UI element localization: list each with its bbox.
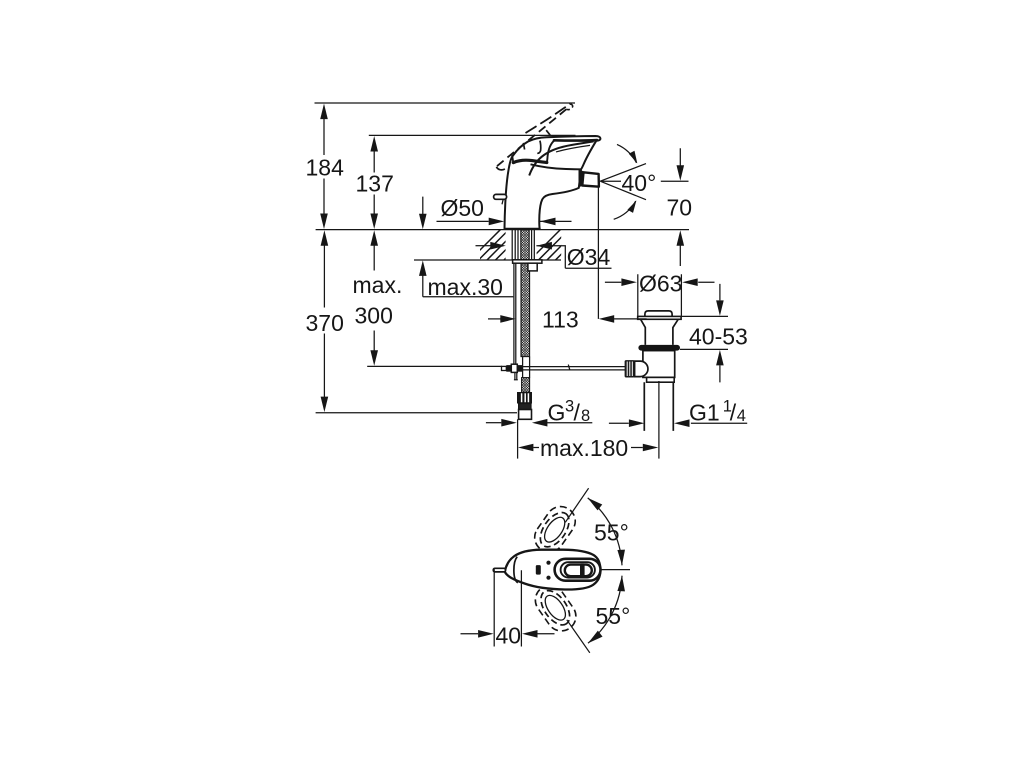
svg-text:G1: G1 bbox=[689, 400, 720, 426]
raised handle (dashed): bottom hook bbox=[496, 167, 505, 170]
top view: handle bar detail bbox=[580, 563, 585, 576]
faucet body with spout horn (side view) bbox=[505, 136, 601, 229]
countertop surface line bbox=[316, 229, 689, 231]
svg-text:max.30: max.30 bbox=[428, 274, 503, 300]
drain: knurled adjuster knob bbox=[625, 360, 635, 377]
top view: 55deg lower extension line bbox=[567, 620, 590, 653]
top view: dot upper bbox=[546, 561, 550, 565]
dimension 40 extension lines bbox=[494, 569, 521, 646]
pop-up rod lower stub bbox=[514, 372, 518, 379]
aerator extension line bbox=[597, 187, 599, 319]
hose collar band bbox=[519, 404, 531, 410]
svg-text:/: / bbox=[730, 400, 737, 426]
drain: pop-up valve body upper bbox=[641, 319, 679, 345]
aerator collar (dark) bbox=[579, 170, 583, 186]
drain: slip collar bbox=[647, 377, 675, 382]
flexible supply hose (braided, lower) bbox=[522, 378, 530, 393]
handle rear edge bbox=[512, 155, 513, 163]
handle front corner edge bbox=[547, 140, 555, 162]
dimension 184 line bbox=[323, 119, 325, 215]
pop-up knob stem tick bbox=[502, 199, 503, 204]
dimension max.30 arrows bbox=[423, 197, 514, 297]
top view: 55deg lower arc bbox=[588, 576, 622, 644]
aerator block bbox=[582, 172, 599, 186]
dimension 370 line bbox=[323, 245, 325, 398]
svg-text:300: 300 bbox=[355, 303, 393, 329]
max.180 extension line left bbox=[517, 419, 519, 458]
dimension 137 line bbox=[373, 151, 375, 215]
dimension 40 arrows bbox=[461, 633, 479, 635]
top view: dashed handle rotated up 55deg bbox=[529, 501, 581, 558]
spray angle arcs bbox=[617, 144, 637, 163]
svg-text:max.180: max.180 bbox=[540, 435, 628, 461]
raised handle (dashed): tip bbox=[566, 104, 572, 110]
cap seam thick line bbox=[513, 160, 547, 162]
top view: handle inner ring bbox=[561, 562, 595, 577]
hose end tube G3/8 bbox=[519, 410, 532, 420]
supply hose plain section bbox=[523, 357, 530, 378]
370 bottom reference line bbox=[316, 412, 517, 414]
pop-up tee clevis bbox=[502, 366, 507, 370]
reference line 137 level bbox=[369, 134, 576, 136]
mounting flange under counter bbox=[513, 260, 542, 263]
pop-up tee left block bbox=[506, 365, 511, 372]
dimension 70 bbox=[661, 180, 689, 182]
top view: aerator stub bbox=[493, 568, 505, 572]
reference line 184 level bbox=[315, 102, 576, 104]
horizontal pop-up linkage rod bbox=[523, 367, 626, 370]
top view: centerline right bbox=[601, 569, 631, 571]
raised handle (dashed): skirt dashes over body bbox=[523, 130, 550, 149]
svg-text:40-53: 40-53 bbox=[689, 324, 748, 350]
raised handle (dashed): upper edge bbox=[526, 104, 571, 133]
raised handle (dashed): skirt J hook bbox=[537, 141, 540, 154]
counter cross-section hatch right bbox=[528, 228, 596, 262]
svg-text:max.: max. bbox=[353, 272, 403, 298]
top view: faucet body outline bbox=[505, 550, 601, 590]
spray angle lines 40deg bbox=[600, 164, 646, 200]
hose nut fitting bbox=[517, 392, 532, 404]
dimension O63 bbox=[605, 281, 621, 283]
threaded stud (textured) through counter bbox=[521, 230, 529, 260]
counter cross-section hatch left bbox=[468, 228, 536, 262]
top view: handle outer capsule bbox=[555, 559, 601, 581]
svg-text:55°: 55° bbox=[594, 519, 629, 545]
drain: lift knob dome bbox=[645, 311, 672, 317]
dimension 113 bbox=[488, 318, 501, 320]
svg-text:G: G bbox=[548, 399, 566, 425]
counter underside line bbox=[414, 259, 561, 261]
svg-text:40°: 40° bbox=[622, 170, 657, 196]
drain: body lower bbox=[643, 351, 675, 378]
dimension O34 arrows bbox=[476, 245, 491, 247]
svg-text:Ø34: Ø34 bbox=[567, 244, 611, 270]
top view: spout tip seam arc bbox=[514, 557, 518, 583]
dimension max.180 bbox=[533, 447, 642, 449]
svg-text:40: 40 bbox=[496, 622, 522, 648]
horn inner reflection line bbox=[556, 145, 590, 152]
svg-text:184: 184 bbox=[306, 155, 345, 181]
svg-text:/: / bbox=[574, 400, 581, 426]
top view: 55deg upper extension line bbox=[565, 488, 588, 522]
svg-text:370: 370 bbox=[306, 310, 344, 336]
svg-text:55°: 55° bbox=[596, 603, 631, 629]
top view: 55deg upper arc bbox=[588, 498, 622, 565]
dimension O50 leader bbox=[437, 220, 489, 222]
top view: cartridge mark bar bbox=[536, 565, 541, 575]
top view: handle window bbox=[565, 565, 592, 577]
pop-up rod (vertical, upper) bbox=[514, 263, 516, 364]
max.300 bottom reference line bbox=[367, 365, 502, 367]
spout neck top edge bbox=[531, 164, 582, 169]
pop-up knob at rear bbox=[494, 194, 507, 199]
handle underside thick accent bbox=[554, 139, 597, 142]
svg-text:Ø50: Ø50 bbox=[441, 195, 484, 221]
mounting shank sleeve lines through counter bbox=[512, 230, 534, 260]
svg-text:70: 70 bbox=[667, 195, 693, 221]
svg-text:137: 137 bbox=[356, 171, 394, 197]
drain: top flange bbox=[638, 316, 681, 319]
drain: rubber seal ring bbox=[638, 345, 680, 351]
top view: dot lower bbox=[546, 576, 550, 580]
svg-text:113: 113 bbox=[542, 306, 579, 332]
pop-up tee right block bbox=[517, 365, 523, 372]
flexible supply hose (braided, upper) bbox=[521, 263, 530, 356]
svg-text:Ø63: Ø63 bbox=[639, 270, 682, 296]
mounting nut block bbox=[528, 263, 537, 271]
O63 extension lines bbox=[638, 274, 682, 316]
top view: dashed handle rotated down 55deg bbox=[530, 580, 582, 637]
drain: valve housing boss bbox=[635, 361, 648, 377]
spout horn top edge bbox=[529, 141, 593, 175]
raised handle (dashed): lower edge bbox=[496, 109, 566, 167]
linkage rod break tick bbox=[568, 365, 570, 370]
dimension 40-53 bbox=[680, 316, 728, 349]
svg-text:4: 4 bbox=[737, 407, 746, 425]
dimension max.300 line bbox=[373, 245, 375, 352]
drain: tailpipe centerline bbox=[658, 381, 660, 459]
drain: tailpipe G1 1/4 bbox=[644, 382, 673, 431]
pop-up tee body bbox=[511, 364, 517, 372]
